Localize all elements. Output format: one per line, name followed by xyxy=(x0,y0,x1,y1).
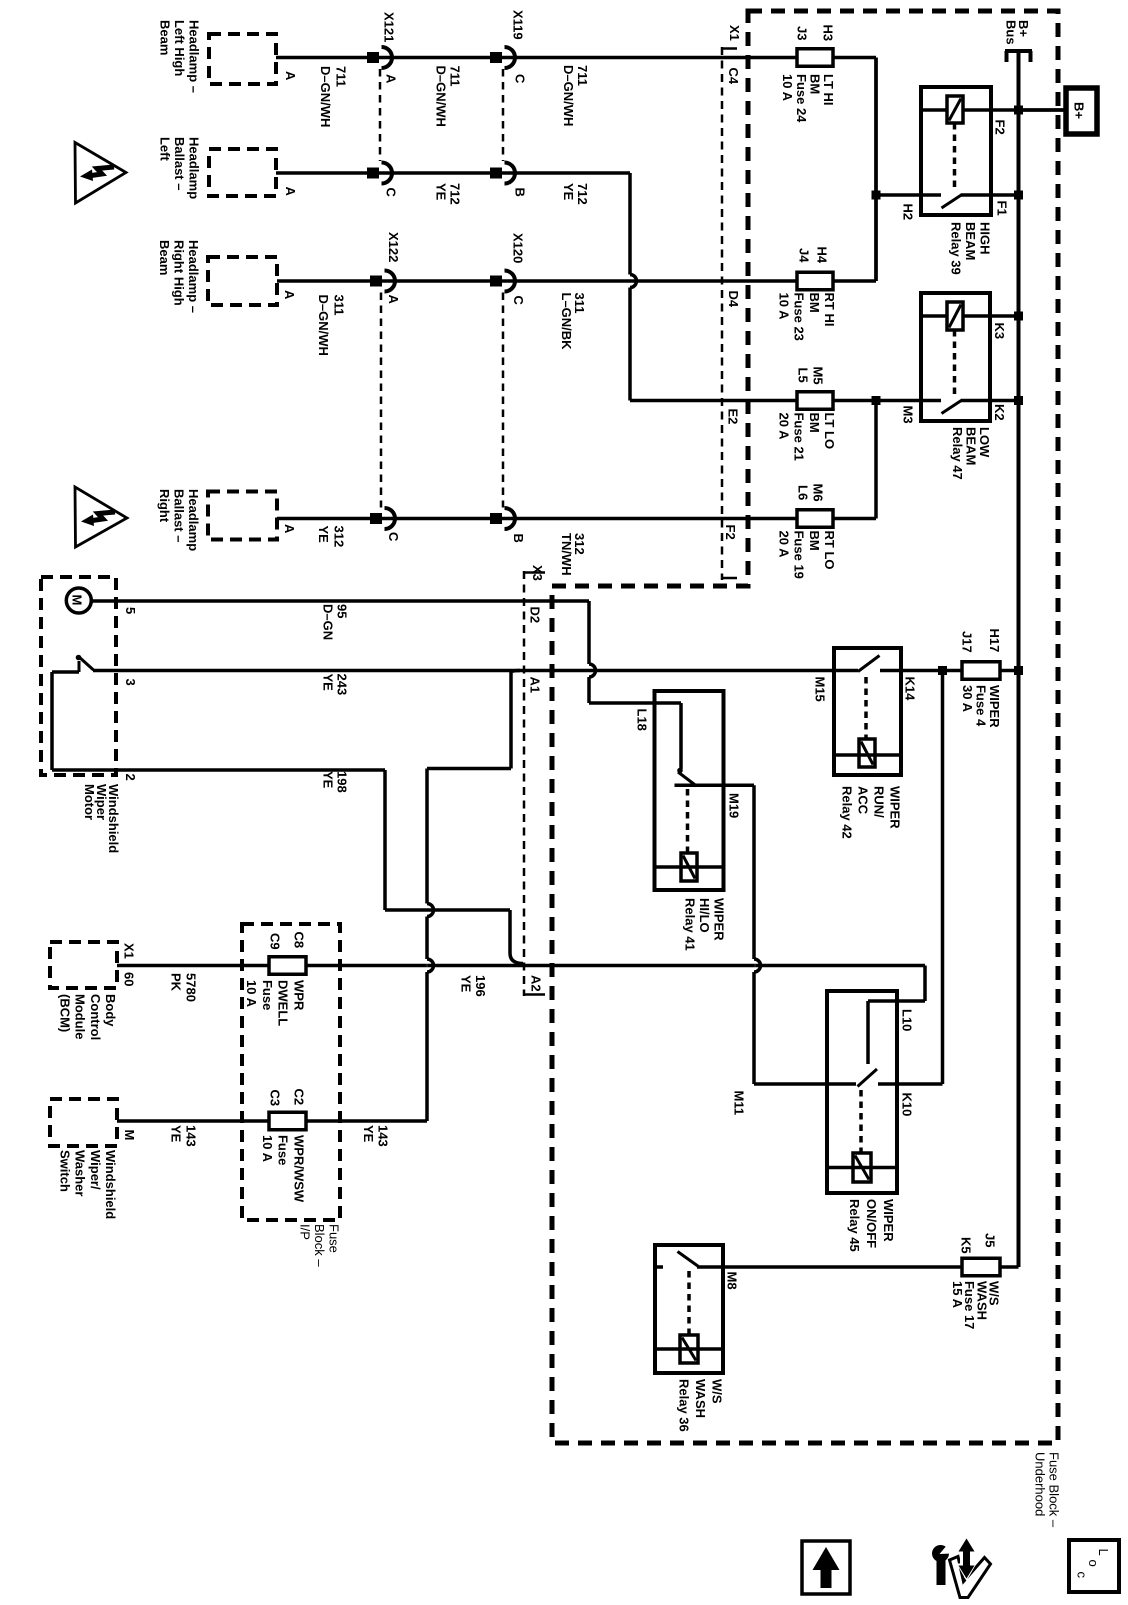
motor pin 2 rail 198 YE xyxy=(50,672,54,770)
svg-text:M: M xyxy=(122,1130,137,1141)
svg-text:Beam: Beam xyxy=(158,20,173,55)
svg-text:M8: M8 xyxy=(725,1272,740,1290)
connector X120 pin C xyxy=(490,276,502,287)
svg-text:A: A xyxy=(282,524,297,534)
relay 47 coil-switch dashed link xyxy=(953,330,957,396)
relay 42 WIPER RUN/ACC box xyxy=(834,648,901,775)
relay 47 switch line M3-K2 xyxy=(876,399,941,403)
Windshield Wiper/Washer Switch box xyxy=(50,1099,117,1146)
svg-text:A: A xyxy=(384,74,399,84)
svg-text:198: 198 xyxy=(335,771,350,793)
relay 36 coil dashed link xyxy=(687,1271,691,1334)
fuse 19 RT LO 20A xyxy=(797,510,833,528)
svg-text:15 A: 15 A xyxy=(950,1281,965,1309)
relay 36 coil rail xyxy=(655,1347,723,1351)
motor switch arm xyxy=(79,657,94,671)
svg-text:B+: B+ xyxy=(1072,102,1087,119)
warning triangle (left ballast) xyxy=(75,143,126,204)
svg-text:Body: Body xyxy=(103,994,118,1027)
svg-text:WPR/WSW: WPR/WSW xyxy=(292,1135,307,1203)
svg-text:M19: M19 xyxy=(727,793,742,818)
svg-text:Left High: Left High xyxy=(172,20,187,76)
relay 42 switch line K14 out xyxy=(880,669,962,673)
svg-text:3: 3 xyxy=(123,679,138,686)
relay 41 coil xyxy=(681,853,697,881)
svg-text:A: A xyxy=(386,295,401,305)
svg-text:Fuse: Fuse xyxy=(260,980,275,1010)
svg-text:M3: M3 xyxy=(901,406,916,424)
svg-text:X1: X1 xyxy=(122,943,137,959)
svg-text:YE: YE xyxy=(561,183,576,201)
wire LT LO fuse feed xyxy=(630,399,797,403)
svg-text:Headlamp: Headlamp xyxy=(186,489,201,551)
svg-text:Headlamp –: Headlamp – xyxy=(187,20,202,93)
wire relay39 H2 output xyxy=(874,58,878,282)
svg-text:Ballast –: Ballast – xyxy=(172,137,187,190)
svg-text:143: 143 xyxy=(376,1125,391,1147)
relay 41 switch arm xyxy=(678,772,697,786)
svg-text:C2: C2 xyxy=(292,1089,307,1106)
Headlamp Ballast Right connector box xyxy=(208,492,277,540)
svg-text:K10: K10 xyxy=(900,1093,915,1117)
svg-text:BM: BM xyxy=(807,531,822,551)
svg-text:Right: Right xyxy=(157,489,172,523)
svg-text:X121: X121 xyxy=(382,12,397,42)
relay 39 switch arm xyxy=(942,195,963,209)
svg-text:D4: D4 xyxy=(726,291,741,308)
battery B+ terminal box xyxy=(1066,88,1097,134)
svg-text:J17: J17 xyxy=(960,631,975,653)
svg-text:C: C xyxy=(513,74,528,84)
svg-text:YE: YE xyxy=(361,1125,376,1143)
Fuse Block I/P box xyxy=(242,924,340,1220)
svg-text:K3: K3 xyxy=(992,323,1007,340)
svg-text:H17: H17 xyxy=(987,629,1002,653)
wire 143 YE washer switch xyxy=(117,1119,269,1123)
svg-text:Fuse 21: Fuse 21 xyxy=(792,413,807,461)
svg-text:Motor: Motor xyxy=(82,784,97,820)
svg-text:Module: Module xyxy=(73,994,88,1040)
svg-text:A2: A2 xyxy=(529,975,544,992)
Fuse Block - Underhood boundary xyxy=(552,11,1058,1443)
svg-text:ACC: ACC xyxy=(856,786,871,815)
LOC icon box xyxy=(1069,1540,1119,1592)
svg-text:Relay 41: Relay 41 xyxy=(683,898,698,951)
svg-text:J5: J5 xyxy=(983,1233,998,1247)
svg-text:o: o xyxy=(1086,1560,1101,1567)
svg-text:Bus: Bus xyxy=(1004,20,1019,45)
svg-text:TN/WH: TN/WH xyxy=(559,533,574,576)
svg-text:K2: K2 xyxy=(992,404,1007,421)
svg-text:10 A: 10 A xyxy=(260,1135,275,1163)
relay 39 coil-switch dashed link xyxy=(953,123,957,189)
svg-text:M6: M6 xyxy=(811,484,826,502)
relay 36 coil xyxy=(680,1335,698,1363)
svg-text:RT LO: RT LO xyxy=(822,531,837,570)
svg-text:HI/LO: HI/LO xyxy=(697,898,712,933)
wire 711 D-GN/WH headlamp left high beam xyxy=(276,56,876,60)
connector X121 pin A xyxy=(367,52,379,63)
relay 47 LOW BEAM box xyxy=(921,293,990,421)
relay 41 switch rail M19 xyxy=(675,784,755,788)
relay 45 coil xyxy=(853,1153,871,1182)
X121 link xyxy=(379,69,382,161)
svg-text:D2: D2 xyxy=(528,607,543,624)
fuse 24 LT HI 10A xyxy=(797,49,833,67)
svg-text:M15: M15 xyxy=(813,677,828,702)
svg-text:X1: X1 xyxy=(727,25,742,41)
relay 36 switch rail M8 out xyxy=(655,1265,663,1269)
svg-text:5: 5 xyxy=(123,607,138,614)
svg-text:H2: H2 xyxy=(901,204,916,221)
relay 39 switch line H2-F1 xyxy=(876,193,941,197)
svg-text:J3: J3 xyxy=(795,26,810,40)
svg-text:712: 712 xyxy=(575,183,590,205)
warning triangle (right ballast) xyxy=(75,487,127,547)
svg-text:711: 711 xyxy=(575,65,590,86)
svg-text:Relay 45: Relay 45 xyxy=(847,1199,862,1252)
svg-text:YE: YE xyxy=(316,526,331,544)
fuse WPR/WSW 10A C2/C3 xyxy=(269,1112,306,1130)
svg-text:J4: J4 xyxy=(797,248,812,263)
svg-text:Fuse Block –: Fuse Block – xyxy=(1047,1452,1062,1528)
svg-text:D–GN: D–GN xyxy=(321,604,336,640)
Body Control Module box xyxy=(50,942,117,988)
wire 198 to junction with 196 xyxy=(383,770,387,910)
wire 196 corner to relay 45 L10 xyxy=(923,966,927,1002)
motor switch contact xyxy=(52,670,79,674)
svg-text:BM: BM xyxy=(807,293,822,313)
wire 95 drop to relay 41 L18 xyxy=(587,601,591,664)
svg-text:YE: YE xyxy=(321,674,336,692)
wire 196 YE to fuse block underhood xyxy=(306,964,427,968)
svg-text:BEAM: BEAM xyxy=(963,222,978,260)
svg-text:Wiper/: Wiper/ xyxy=(88,1150,103,1190)
svg-text:F2: F2 xyxy=(723,525,738,540)
svg-text:143: 143 xyxy=(184,1125,199,1147)
svg-text:M: M xyxy=(70,595,85,606)
svg-text:WPR: WPR xyxy=(292,980,307,1011)
relay 42 coil xyxy=(859,739,875,767)
relay 41 WIPER HI/LO box xyxy=(655,691,724,890)
svg-text:H4: H4 xyxy=(815,247,830,264)
B+ Bus symbol xyxy=(1005,49,1032,53)
svg-text:K5: K5 xyxy=(959,1237,974,1254)
svg-text:A1: A1 xyxy=(528,677,543,694)
svg-text:60: 60 xyxy=(122,972,137,986)
connector X122 pin A xyxy=(370,276,382,287)
connector X120 pin B xyxy=(490,513,502,524)
relay 45 coil rail xyxy=(827,1166,897,1170)
svg-text:196: 196 xyxy=(473,975,488,997)
relay 41 coil rail xyxy=(655,865,724,869)
motor symbol M xyxy=(66,588,91,613)
Windshield Wiper Motor box xyxy=(41,577,116,775)
svg-text:F2: F2 xyxy=(993,120,1008,135)
svg-text:Headlamp –: Headlamp – xyxy=(186,240,201,313)
relay 36 W/S WASH box xyxy=(655,1245,723,1373)
wire 95 D-GN motor pin 5 xyxy=(91,599,589,603)
fuse 4 WIPER 30A xyxy=(962,662,1000,680)
Headlamp Ballast Left connector box xyxy=(209,149,276,196)
svg-text:A: A xyxy=(283,71,298,81)
svg-text:Washer: Washer xyxy=(73,1150,88,1196)
svg-text:F1: F1 xyxy=(995,201,1010,216)
wire RT LO fuse feed xyxy=(833,517,876,521)
svg-text:Control: Control xyxy=(88,994,103,1040)
svg-text:711: 711 xyxy=(448,66,463,87)
svg-text:C9: C9 xyxy=(268,933,283,950)
svg-text:YE: YE xyxy=(321,771,336,789)
connector X119 pin C xyxy=(490,52,502,63)
svg-text:Fuse: Fuse xyxy=(276,1135,291,1165)
svg-text:c: c xyxy=(1075,1572,1090,1579)
relay 45 switch arm xyxy=(858,1069,878,1087)
svg-text:M5: M5 xyxy=(811,367,826,385)
svg-text:L6: L6 xyxy=(796,485,811,500)
svg-text:Relay 36: Relay 36 xyxy=(677,1379,692,1432)
svg-text:I/P: I/P xyxy=(298,1224,313,1240)
svg-text:30 A: 30 A xyxy=(960,685,975,713)
svg-text:L5: L5 xyxy=(796,368,811,383)
X119 link xyxy=(502,69,505,161)
svg-text:DWELL: DWELL xyxy=(276,980,291,1026)
svg-text:WIPER: WIPER xyxy=(712,898,727,941)
relay 39 coil line F2 xyxy=(921,108,947,112)
svg-text:D–GN/WH: D–GN/WH xyxy=(434,66,449,127)
X120 link xyxy=(502,293,505,508)
svg-text:Underhood: Underhood xyxy=(1033,1452,1048,1516)
svg-text:Relay 47: Relay 47 xyxy=(950,427,965,480)
svg-text:Fuse: Fuse xyxy=(327,1224,342,1253)
svg-text:Left: Left xyxy=(158,137,173,162)
wire 712 YE headlamp ballast left xyxy=(276,171,630,175)
svg-text:C8: C8 xyxy=(292,932,307,949)
svg-text:A: A xyxy=(283,187,298,197)
svg-text:YE: YE xyxy=(459,975,474,993)
svg-text:10 A: 10 A xyxy=(780,74,795,102)
wire 5780 PK BCM pin 60 xyxy=(117,964,269,968)
svg-text:243: 243 xyxy=(335,674,350,696)
svg-text:LT LO: LT LO xyxy=(822,413,837,450)
svg-text:B: B xyxy=(511,534,526,543)
svg-text:WASH: WASH xyxy=(693,1379,708,1418)
svg-text:ON/OFF: ON/OFF xyxy=(864,1199,879,1248)
connector X3 face (fuse block) xyxy=(523,571,526,996)
svg-text:HIGH: HIGH xyxy=(978,222,993,255)
svg-text:C3: C3 xyxy=(268,1090,283,1107)
svg-text:RUN/: RUN/ xyxy=(872,786,887,818)
svg-text:X120: X120 xyxy=(511,233,526,263)
svg-text:W/S: W/S xyxy=(710,1379,725,1404)
wire 243 YE motor pin 3 xyxy=(93,669,858,673)
svg-text:BM: BM xyxy=(807,413,822,433)
relay 41 coil dashed link xyxy=(686,789,690,852)
fuse 21 LT LO 20A xyxy=(797,392,833,410)
wire 312 YE headlamp ballast right xyxy=(277,517,797,521)
svg-text:5780: 5780 xyxy=(184,973,199,1002)
svg-text:Beam: Beam xyxy=(157,240,172,275)
svg-text:X122: X122 xyxy=(386,232,401,262)
svg-text:YE: YE xyxy=(169,1125,184,1143)
svg-text:Fuse 23: Fuse 23 xyxy=(792,293,807,341)
relay 45 switch rail M11-K10 xyxy=(827,1082,856,1086)
svg-text:L18: L18 xyxy=(635,709,650,731)
relay 47 coil line K3 xyxy=(921,314,947,318)
svg-text:711: 711 xyxy=(334,66,349,87)
wire fuse 21 to junction xyxy=(833,399,876,403)
svg-text:K14: K14 xyxy=(903,677,918,702)
svg-text:L–GN/BK: L–GN/BK xyxy=(559,293,574,351)
Headlamp Left High Beam connector box xyxy=(209,34,276,84)
wire B+ bus feed xyxy=(1017,51,1021,1267)
svg-text:WIPER: WIPER xyxy=(888,786,903,829)
svg-text:D–GN/WH: D–GN/WH xyxy=(318,66,333,127)
svg-text:X119: X119 xyxy=(511,10,526,40)
svg-text:E2: E2 xyxy=(726,409,741,425)
svg-text:10 A: 10 A xyxy=(244,980,259,1008)
relay 41 switch contact xyxy=(679,703,683,769)
svg-text:RT HI: RT HI xyxy=(822,293,837,327)
relay 47 coil xyxy=(947,302,963,330)
wire fuse 17 to bus xyxy=(1000,1265,1019,1269)
svg-text:20 A: 20 A xyxy=(776,531,791,559)
svg-text:Relay 39: Relay 39 xyxy=(949,222,964,275)
relay 39 HIGH BEAM box xyxy=(921,87,991,215)
wire B+ box to bus xyxy=(1019,108,1067,112)
svg-text:B: B xyxy=(513,188,528,197)
svg-text:C4: C4 xyxy=(726,68,741,85)
svg-text:Windshield: Windshield xyxy=(103,1150,118,1219)
wire 712 vertical with hop over 311 xyxy=(628,173,632,275)
relay 45 coil dashed link xyxy=(859,1090,863,1152)
svg-text:Fuse 19: Fuse 19 xyxy=(792,531,807,579)
connector X119 pin B xyxy=(490,168,502,179)
svg-text:X3: X3 xyxy=(530,565,545,581)
wire 711 corner to relay output xyxy=(874,58,878,282)
connector X1 face (fuse block) xyxy=(721,47,724,580)
wire 311 D-GN/WH headlamp right high beam xyxy=(277,279,797,283)
fuse 17 W/S WASH 15A xyxy=(962,1258,1000,1276)
svg-text:Block –: Block – xyxy=(312,1224,327,1267)
relay 42 switch arm xyxy=(858,656,880,672)
fuse 23 RT HI 10A xyxy=(797,272,833,290)
svg-text:L: L xyxy=(1096,1549,1111,1556)
nav arrow icon box xyxy=(802,1541,850,1594)
svg-text:712: 712 xyxy=(448,183,463,205)
svg-text:C: C xyxy=(386,532,401,542)
wiper/washer tools icon xyxy=(950,1557,991,1598)
wire 143 to A1 xyxy=(306,1119,427,1123)
relay 36 switch arm xyxy=(678,1252,699,1267)
relay 39 coil xyxy=(947,96,963,123)
svg-text:H3: H3 xyxy=(821,25,836,42)
connector X121 pin C xyxy=(367,168,379,179)
svg-text:2: 2 xyxy=(123,774,138,781)
svg-text:WIPER: WIPER xyxy=(881,1199,896,1242)
svg-text:Switch: Switch xyxy=(57,1150,72,1192)
svg-text:Relay 42: Relay 42 xyxy=(840,786,855,839)
svg-text:311: 311 xyxy=(332,295,347,316)
svg-text:C: C xyxy=(384,188,399,198)
fuse WPR DWELL 10A C8/C9 xyxy=(269,957,306,975)
svg-text:95: 95 xyxy=(335,604,350,618)
svg-text:C: C xyxy=(511,296,526,306)
Headlamp Right High Beam connector box xyxy=(208,257,277,305)
relay 45 WIPER ON/OFF box xyxy=(827,991,897,1193)
svg-text:L10: L10 xyxy=(900,1009,915,1031)
svg-text:M11: M11 xyxy=(732,1091,747,1116)
relay 47 switch arm xyxy=(942,400,963,414)
svg-text:Headlamp: Headlamp xyxy=(187,137,202,199)
svg-text:Right High: Right High xyxy=(172,240,187,306)
svg-text:Ballast –: Ballast – xyxy=(172,489,187,542)
relay 42 coil dashed link xyxy=(864,677,868,738)
svg-text:D–GN/WH: D–GN/WH xyxy=(316,295,331,356)
wire fuse4 junction to relay 45 K10 xyxy=(941,671,945,1085)
svg-text:20 A: 20 A xyxy=(776,413,791,441)
svg-text:312: 312 xyxy=(332,526,347,548)
svg-text:(BCM): (BCM) xyxy=(57,994,72,1032)
svg-text:10 A: 10 A xyxy=(776,293,791,321)
svg-text:D–GN/WH: D–GN/WH xyxy=(561,65,576,126)
svg-text:PK: PK xyxy=(169,973,184,992)
connector X122 pin C xyxy=(370,513,382,524)
svg-text:YE: YE xyxy=(434,183,449,201)
wire M19 to relay 45 M11 xyxy=(752,785,756,959)
relay 42 coil rail xyxy=(834,753,901,757)
svg-text:A: A xyxy=(282,290,297,300)
X122 link xyxy=(380,293,383,508)
